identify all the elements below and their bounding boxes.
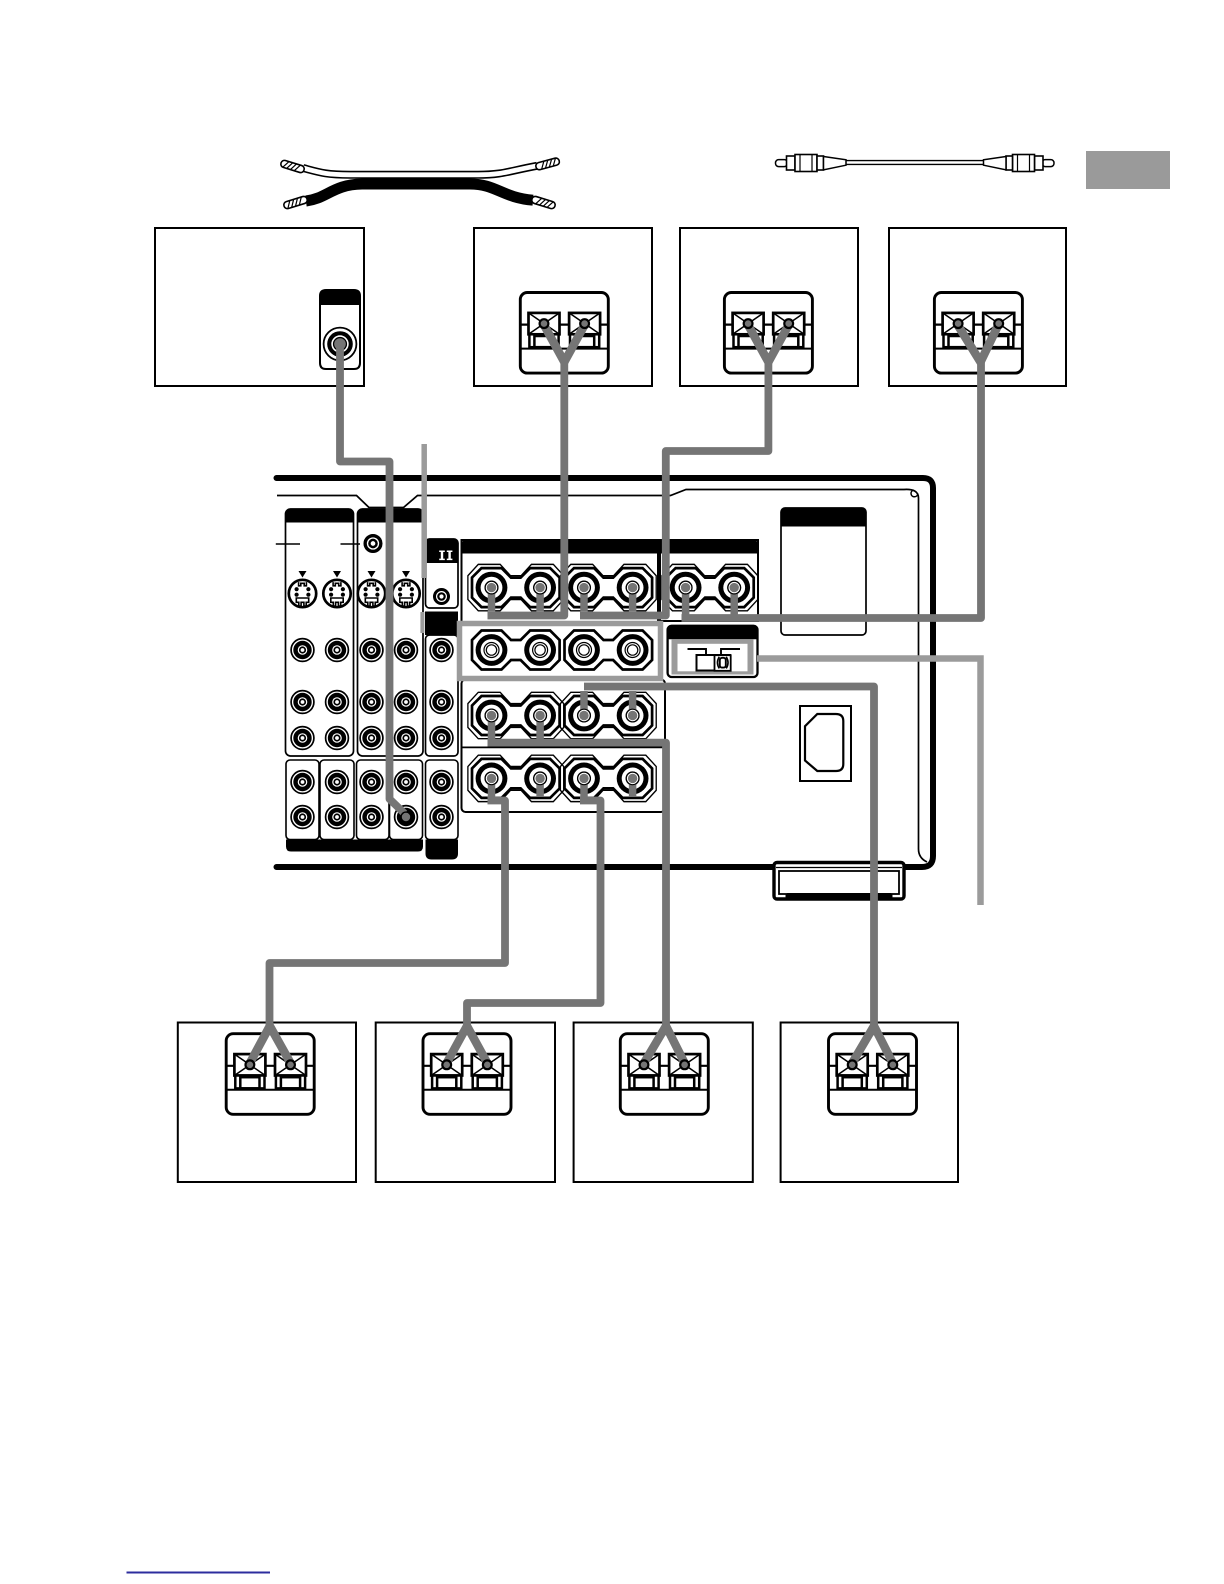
panel2 top jack	[365, 536, 381, 552]
center terminal cores	[679, 581, 740, 594]
audio cord left RCA plug	[776, 155, 847, 172]
surround back R clip dots	[442, 1060, 491, 1069]
surround switch panel	[668, 626, 758, 677]
center speaker clip dots	[954, 319, 1003, 328]
rear speaker terminals pair A	[472, 631, 560, 670]
front speaker terminals pair B	[560, 564, 656, 610]
wire surround L Y-branches	[644, 1026, 685, 1063]
subwoofer box	[155, 228, 364, 386]
wire surround back L leads	[492, 777, 541, 798]
speaker terminal header bar	[462, 540, 759, 554]
wire front L Y-branches	[544, 325, 585, 362]
speaker cable stripped tip bottom-right	[531, 196, 556, 210]
row2 highlight frame	[460, 624, 661, 679]
surround R terminal cores	[578, 709, 639, 722]
speaker terminal row1 left compartment	[462, 540, 659, 626]
front speaker terminals pair C	[662, 564, 758, 610]
column5 footer tab	[426, 840, 459, 860]
wire surround back R Y-branches	[447, 1026, 488, 1063]
wire surround back L Y-branches	[250, 1026, 291, 1063]
surround right speaker box	[781, 1023, 958, 1183]
RCA jack grid upper	[291, 639, 453, 750]
surround back right speaker box	[376, 1023, 555, 1183]
row3 terminals pair B	[560, 692, 656, 738]
lower jack box col5	[426, 760, 459, 840]
s-video jack column4	[392, 571, 419, 607]
row4 terminals pair A	[468, 755, 564, 801]
II sub panel	[426, 539, 459, 608]
lower jack box col2	[320, 760, 354, 840]
s-video jack column1	[289, 571, 316, 607]
front speaker R box	[680, 228, 858, 386]
panel footer bar	[286, 840, 423, 852]
surround R clip dots	[848, 1060, 897, 1069]
surround back left speaker box	[178, 1023, 356, 1183]
wire surround R leads	[584, 691, 633, 718]
surround left speaker box	[574, 1023, 753, 1183]
leader line from surround switch	[757, 659, 981, 906]
wire surround L leads	[492, 714, 541, 740]
row3 terminals pair A	[468, 692, 564, 738]
wire center leads	[686, 586, 735, 615]
front R speaker clip dots	[744, 319, 793, 328]
row4 terminals pair B	[560, 755, 656, 801]
front L speaker clip dots	[540, 319, 589, 328]
s-video jack column2	[323, 571, 350, 607]
receiver foot	[774, 863, 904, 900]
front speaker terminals pair A	[468, 564, 564, 610]
surround L terminal cores	[485, 709, 546, 722]
front R terminal cores	[578, 581, 639, 594]
wire surround back R run	[467, 801, 601, 1031]
surround back L clip dots	[246, 1060, 295, 1069]
wire surround back R leads	[584, 777, 633, 798]
center speaker box	[889, 228, 1066, 386]
wire center Y-branches	[958, 325, 999, 362]
rear speaker terminals pair B	[565, 631, 653, 670]
front speaker L box	[474, 228, 652, 386]
wire surround R run	[584, 687, 874, 1031]
surround back L terminal cores	[485, 772, 546, 785]
lower jack box col4	[390, 760, 423, 840]
lower jack box col1	[286, 760, 319, 840]
speaker terminal row1 right compartment	[660, 540, 758, 621]
wire surround back L run	[270, 801, 506, 1031]
leader line gray vertical	[421, 444, 427, 578]
s-video jack column3	[358, 571, 385, 607]
wire front L leads	[492, 586, 541, 612]
gray index tab	[1086, 151, 1170, 189]
receiver chassis outline	[277, 478, 934, 867]
speaker cable white conductor	[303, 166, 537, 175]
wire subwoofer to mix out	[340, 346, 405, 814]
subwoofer jack plug core	[334, 338, 346, 350]
surround back R terminal cores	[578, 772, 639, 785]
wire front R Y-branches	[748, 325, 789, 362]
RCA jack grid lower	[291, 771, 453, 829]
wire front R leads	[584, 586, 633, 612]
speaker cable stripped tip top-left	[280, 160, 305, 174]
leader line gray stub	[420, 612, 424, 633]
audio cord right RCA plug	[984, 155, 1055, 172]
alignment tick left	[276, 543, 300, 545]
wire center run	[682, 360, 982, 618]
blue footer rule	[127, 1572, 271, 1574]
front L terminal cores	[485, 581, 546, 594]
wire surround R Y-branches	[852, 1026, 893, 1063]
mix out jack plug core	[400, 811, 411, 822]
speaker cable stripped tip top-right	[535, 157, 560, 170]
column5 black block	[425, 612, 458, 636]
wire surround L run	[488, 743, 667, 1030]
input panel 1	[286, 509, 354, 756]
antenna panel	[781, 508, 866, 635]
speaker cable stripped tip bottom-left	[283, 196, 308, 210]
column5 panel	[426, 635, 459, 756]
input panel 2	[358, 509, 424, 756]
AC power socket	[800, 706, 851, 781]
rows 3-4 terminal box	[462, 680, 666, 813]
audio cord cable	[845, 161, 984, 165]
speaker cable black conductor	[306, 184, 533, 201]
wire front R run	[580, 360, 768, 616]
lower jack box col3	[357, 760, 390, 840]
alignment tick middle	[341, 543, 361, 545]
surround L clip dots	[640, 1060, 689, 1069]
wire front L run	[488, 360, 565, 616]
